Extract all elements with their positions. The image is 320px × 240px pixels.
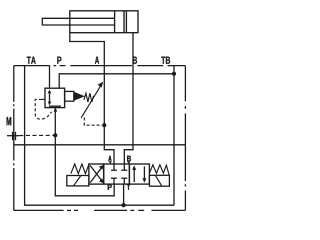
node M junction [53, 133, 57, 137]
reducing valve spring [84, 93, 94, 102]
cylinder C1 body [70, 11, 138, 33]
reducing valve flow arrow [49, 92, 51, 103]
reducing valve blocked port bar [49, 105, 61, 107]
port label TB [161, 57, 170, 64]
manifold plate boundary bottom edge [14, 209, 186, 211]
cylinder piston [114, 11, 116, 33]
valve port label T [127, 184, 130, 190]
reducing valve poppet triangle [74, 92, 85, 101]
pressure reducing valve V1 body [45, 88, 65, 107]
left return spring [71, 164, 89, 174]
valve port B arrow mark [127, 162, 130, 165]
wire cylinder port A to valve A [70, 33, 114, 165]
wire P riser to reducing valve [49, 66, 51, 89]
directional valve right box [129, 164, 149, 184]
dashed gauge line M [19, 134, 53, 136]
node pilot-A junction [102, 123, 106, 127]
gauge port M symbol [7, 135, 19, 137]
directional valve U1 left box [89, 164, 104, 184]
manifold plate boundary right edge [184, 66, 186, 211]
valve port label P [108, 184, 112, 190]
pilot dashed loop [35, 99, 51, 119]
port label B [133, 57, 137, 64]
valve port label A [108, 156, 111, 162]
node drain-TB junction [172, 72, 176, 76]
manifold plate boundary top edge [14, 65, 186, 67]
port label M [7, 117, 12, 125]
wire cylinder port B to valve B [124, 33, 133, 165]
reducing valve pilot tick [42, 98, 45, 100]
cylinder rod [42, 18, 114, 25]
valve port label B [127, 156, 131, 162]
right return spring [149, 165, 169, 176]
wire reducing valve drain to TB [59, 74, 174, 88]
valve port A arrow mark [109, 161, 112, 164]
port TA riser and tank bottom line [25, 66, 174, 206]
port label TA [27, 57, 36, 64]
node T junction [122, 203, 126, 207]
left box crossed arrows [90, 166, 101, 181]
right box parallel arrows [133, 168, 135, 182]
center box blocked ports [113, 164, 115, 170]
left solenoid box [67, 176, 89, 186]
right solenoid box [149, 175, 169, 186]
wire valve T to tank line [123, 184, 125, 205]
manifold plate boundary left edge [13, 66, 15, 211]
arrowhead into reducing valve bottom [54, 108, 58, 112]
plate interface line [14, 144, 186, 146]
adjustability arrow [81, 86, 101, 118]
reducing valve spring tab [65, 91, 74, 101]
port TB riser [173, 66, 175, 206]
port label P [57, 57, 61, 64]
wire reduced pressure output to valve P [55, 108, 114, 196]
port label A [95, 57, 99, 64]
pilot dashed line to A [84, 118, 102, 126]
directional valve center box [104, 164, 130, 184]
